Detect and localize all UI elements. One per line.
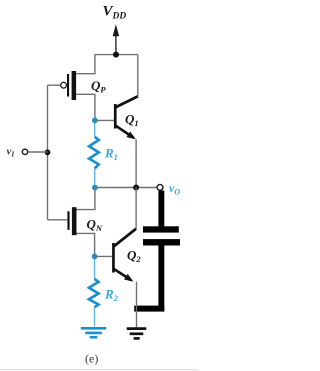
VDD supply arrow bbox=[113, 24, 120, 55]
load capacitor (thick) bbox=[134, 191, 180, 312]
wire: VDD top rail bbox=[95, 54, 138, 56]
wire: node to Q1 base bbox=[95, 119, 114, 121]
terminal: vO bbox=[157, 185, 163, 191]
transistor QP (PMOS) bbox=[61, 71, 76, 100]
wire: output node down to Q2 collector bbox=[135, 188, 137, 229]
svg-text:(e): (e) bbox=[85, 352, 98, 366]
svg-text:QN: QN bbox=[87, 217, 103, 234]
svg-text:VDD: VDD bbox=[103, 3, 127, 21]
wire: Q1 collector to rail bbox=[137, 55, 139, 97]
junction: VDD node bbox=[113, 52, 119, 58]
wire: output line from R1 node to vO terminal bbox=[95, 187, 157, 189]
resistor R1 bbox=[89, 123, 99, 185]
svg-text:Q1: Q1 bbox=[125, 112, 139, 129]
wire: QP gate to input rail bbox=[48, 84, 61, 86]
wire: node to Q2 base bbox=[95, 255, 113, 257]
svg-text:Q2: Q2 bbox=[127, 248, 141, 265]
wire: Q1 emitter down to output node bbox=[135, 139, 137, 187]
resistor R2 bbox=[89, 259, 99, 327]
wire: QN gate to input rail bbox=[48, 219, 68, 221]
transistor Q1 (NPN) bbox=[114, 96, 138, 142]
wire: input rail (vertical) bbox=[47, 85, 49, 220]
figure bottom rule bbox=[0, 369, 199, 370]
ground (black, under Q2) bbox=[127, 329, 147, 339]
transistor Q2 (NPN) bbox=[112, 229, 136, 285]
svg-text:vO: vO bbox=[169, 181, 180, 197]
terminal: vI bbox=[22, 149, 27, 154]
wire: QN source down to R2 node bbox=[77, 233, 95, 254]
wire: QP drain down to R1 top node bbox=[76, 94, 95, 120]
svg-text:QP: QP bbox=[91, 78, 106, 95]
junction: R1 bottom node (blue) bbox=[92, 185, 98, 191]
node: R1 top junction (blue) bbox=[92, 118, 98, 124]
junction: R2 top node (blue) bbox=[92, 254, 98, 260]
svg-text:R1: R1 bbox=[104, 146, 118, 163]
transistor QN (NMOS) bbox=[67, 207, 76, 235]
junction: input node bbox=[45, 149, 51, 155]
wire: vI terminal to input node bbox=[28, 151, 47, 153]
wire: Q2 emitter down to ground bbox=[136, 282, 138, 328]
wire: rail down to QP source bbox=[76, 55, 95, 74]
svg-text:R2: R2 bbox=[104, 287, 119, 304]
junction: output node bbox=[133, 185, 139, 191]
wire: QN drain up to R1 bottom node bbox=[77, 188, 95, 210]
svg-text:vI: vI bbox=[7, 146, 16, 159]
ground (blue, under R2) bbox=[81, 328, 106, 337]
